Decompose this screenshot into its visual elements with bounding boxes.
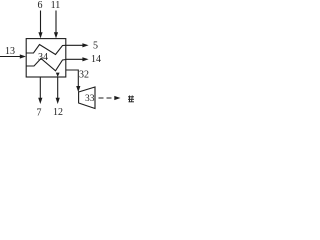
svg-text:7: 7 bbox=[37, 108, 42, 119]
svg-text:11: 11 bbox=[51, 0, 61, 11]
svg-text:12: 12 bbox=[53, 107, 63, 118]
svg-text:14: 14 bbox=[91, 54, 101, 65]
svg-text:6: 6 bbox=[38, 0, 43, 11]
svg-text:33: 33 bbox=[85, 94, 95, 104]
svg-text:13: 13 bbox=[5, 46, 15, 57]
svg-text:32: 32 bbox=[79, 70, 89, 81]
svg-text:5: 5 bbox=[93, 41, 98, 52]
svg-text:34: 34 bbox=[38, 52, 48, 63]
